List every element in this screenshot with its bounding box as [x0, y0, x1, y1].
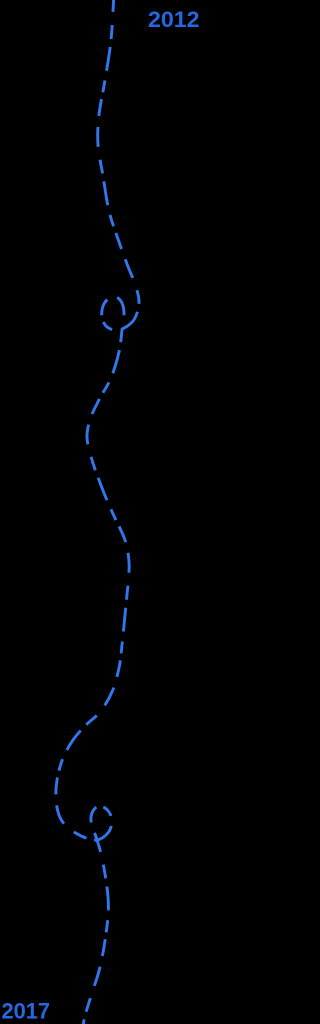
- timeline path svg: [0, 0, 200, 1024]
- svg-text:2017: 2017: [2, 998, 51, 1023]
- wire: dashed timeline curve from 2012 to 2017: [56, 0, 139, 1024]
- svg-text:2012: 2012: [148, 7, 200, 32]
